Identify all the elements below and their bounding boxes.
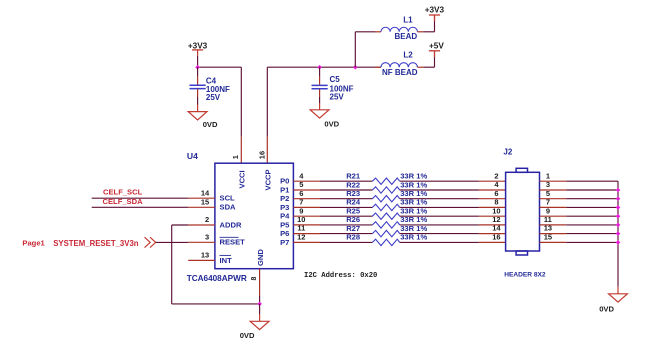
J2 pin 8 number	[494, 198, 498, 207]
pin name P1	[280, 185, 290, 194]
J2 pin 3 number	[546, 180, 550, 189]
svg-text:P5: P5	[280, 220, 290, 229]
svg-text:15: 15	[544, 233, 552, 242]
J2 pin 15 number	[544, 233, 552, 242]
resistor R22 33R 1%	[346, 180, 427, 193]
resistor R24 33R 1%	[346, 198, 427, 211]
svg-text:6: 6	[299, 189, 303, 198]
wire R24 to J2	[400, 206, 506, 208]
svg-text:33R 1%: 33R 1%	[400, 172, 427, 181]
op-amp/IC U4 TCA6408APWR body	[187, 151, 294, 283]
pin number 14	[201, 188, 210, 197]
J2 pin 2 number	[494, 171, 498, 180]
svg-text:15: 15	[201, 197, 209, 206]
svg-text:P6: P6	[280, 229, 289, 238]
connector J2 HEADER 8X2 body	[503, 148, 546, 279]
resistor R26 33R 1%	[346, 215, 427, 228]
U4 pin 6 P2 stub	[293, 198, 320, 200]
wire ADDR loop: left and down to gnd rail	[172, 225, 260, 304]
pin name GND	[256, 249, 265, 266]
svg-text:R24: R24	[346, 198, 361, 207]
capacitor C5 100NF 25V	[312, 75, 354, 102]
svg-text:33R 1%: 33R 1%	[400, 198, 427, 207]
net CELF_SCL wire	[92, 197, 189, 199]
wire U4 pin16 up	[266, 67, 268, 163]
pin name SCL	[220, 194, 236, 203]
U4 pin 7 P3 stub	[293, 206, 320, 208]
svg-text:+3V3: +3V3	[425, 6, 445, 15]
wire junction to ground symbol	[259, 304, 261, 321]
wire RESET to chevron	[156, 241, 189, 243]
resistor R27 33R 1%	[346, 224, 427, 237]
resistor R23 33R 1%	[346, 189, 427, 202]
svg-text:10: 10	[297, 215, 305, 224]
svg-text:R22: R22	[346, 180, 360, 189]
wire R25 to J2	[400, 215, 506, 217]
J2 pin 13 number	[544, 224, 552, 233]
svg-text:R26: R26	[346, 215, 360, 224]
wire U4 to R25	[320, 215, 372, 217]
svg-text:33R 1%: 33R 1%	[400, 215, 427, 224]
ground 0VD under C5	[310, 110, 339, 129]
svg-text:1: 1	[546, 171, 550, 180]
svg-text:HEADER 8X2: HEADER 8X2	[504, 271, 546, 278]
J2 pin 10 number	[492, 206, 500, 215]
wire junction to C4	[197, 67, 199, 84]
pin number 11	[297, 224, 305, 233]
pin name P2	[280, 194, 289, 203]
svg-text:P2: P2	[280, 194, 289, 203]
net label CELF_SCL	[103, 188, 143, 197]
svg-text:P3: P3	[280, 203, 289, 212]
node junction bus row 2	[616, 188, 621, 193]
ground 0VD under C4	[188, 112, 218, 129]
pin name P3	[280, 203, 289, 212]
wire up to L1 row	[355, 32, 381, 67]
pin 1 number	[231, 155, 240, 159]
wire U4 to R26	[320, 224, 372, 226]
svg-text:25V: 25V	[330, 93, 345, 102]
svg-text:33R 1%: 33R 1%	[400, 233, 427, 242]
power symbol +3V3 (left)	[188, 41, 208, 56]
wire C5 to ground	[319, 89, 321, 110]
svg-text:5: 5	[546, 189, 550, 198]
node junction bus row 6	[616, 223, 621, 228]
svg-text:2: 2	[494, 171, 498, 180]
wire U4 to R27	[320, 233, 372, 235]
node junction bus row 7	[616, 231, 621, 236]
J2 pin 3 stub/wire to bus	[540, 189, 619, 191]
svg-text:R25: R25	[346, 207, 361, 216]
J2 pin 12 number	[492, 215, 500, 224]
pin name VCCI	[237, 170, 246, 188]
pin number 3	[205, 232, 209, 241]
page reference Page1	[22, 238, 45, 247]
wire R21 to J2	[400, 180, 506, 182]
svg-text:11: 11	[544, 215, 552, 224]
svg-text:0VD: 0VD	[203, 120, 218, 129]
svg-text:2: 2	[205, 215, 209, 224]
svg-text:16: 16	[257, 151, 266, 159]
svg-text:+5V: +5V	[429, 41, 444, 50]
resistor R25 33R 1%	[346, 207, 427, 220]
J2 pin 11 number	[544, 215, 552, 224]
wire R23 to J2	[400, 198, 506, 200]
node junction GND/ADDR	[257, 302, 262, 307]
power symbol +3V3 (right)	[425, 6, 445, 21]
node junction bus row 8	[616, 240, 621, 245]
pin name SDA	[220, 203, 237, 212]
wire VCCP rail to beads	[267, 66, 381, 68]
wire R28 to J2	[400, 241, 506, 243]
U4 pin 3 RESET stub	[188, 241, 215, 243]
U4 pin 12 P7 stub	[293, 241, 320, 243]
wire bus to ground	[617, 287, 619, 294]
ground 0VD at bus	[599, 294, 627, 314]
U4 pin 14 SCL stub	[188, 197, 215, 199]
pin number 15	[201, 197, 209, 206]
svg-text:P7: P7	[280, 238, 289, 247]
svg-text:GND: GND	[256, 249, 265, 266]
wire L2 to +5V	[417, 51, 434, 67]
svg-text:P0: P0	[280, 177, 289, 186]
svg-text:SCL: SCL	[220, 194, 236, 203]
svg-text:L1: L1	[403, 16, 413, 25]
wire into L2	[375, 66, 381, 68]
J2 pin 5 stub/wire to bus	[540, 198, 619, 200]
wire R27 to J2	[400, 233, 506, 235]
svg-text:CELF_SDA: CELF_SDA	[103, 197, 144, 206]
wire U4 to R24	[320, 206, 372, 208]
U4 pin 2 ADDR stub	[188, 224, 215, 226]
svg-text:0VD: 0VD	[324, 120, 339, 129]
ground bus wire on right	[617, 181, 619, 286]
svg-text:16: 16	[492, 233, 500, 242]
wire U4 to R21	[320, 180, 372, 182]
svg-text:BEAD: BEAD	[395, 32, 418, 41]
U4 pin 15 SDA stub	[188, 206, 215, 208]
wire +3V3 stem to junction	[197, 56, 199, 67]
svg-text:33R 1%: 33R 1%	[400, 207, 427, 216]
svg-text:33R 1%: 33R 1%	[400, 224, 427, 233]
svg-text:33R 1%: 33R 1%	[400, 189, 427, 198]
wire L1 to +3V3	[417, 15, 434, 32]
pin name P7	[280, 238, 289, 247]
svg-text:3: 3	[205, 232, 209, 241]
node junction bus row 4	[616, 205, 621, 210]
wire GND pin to junction	[259, 296, 261, 304]
svg-text:R27: R27	[346, 224, 360, 233]
wire R22 to J2	[400, 189, 506, 191]
svg-text:33R 1%: 33R 1%	[400, 180, 427, 189]
J2 pin 13 stub/wire to bus	[540, 233, 619, 235]
wire junction to C5	[319, 67, 321, 85]
svg-text:R21: R21	[346, 172, 361, 181]
J2 pin 14 number	[492, 224, 501, 233]
svg-text:C5: C5	[330, 75, 341, 84]
svg-text:8: 8	[494, 198, 498, 207]
svg-text:13: 13	[544, 224, 552, 233]
svg-text:J2: J2	[503, 148, 512, 157]
J2 pin 7 number	[546, 198, 550, 207]
resistor R21 33R 1%	[346, 172, 427, 185]
J2 pin 1 stub/wire to bus	[540, 180, 619, 182]
inductor L1 BEAD	[381, 16, 417, 42]
svg-text:25V: 25V	[206, 93, 221, 102]
svg-text:NF BEAD: NF BEAD	[382, 68, 418, 77]
svg-text:0VD: 0VD	[240, 331, 255, 340]
svg-text:Page1: Page1	[22, 238, 45, 247]
svg-text:RESET: RESET	[220, 238, 246, 247]
pin name P4	[280, 212, 290, 221]
node junction at C5	[317, 65, 322, 70]
svg-text:R23: R23	[346, 189, 360, 198]
svg-text:7: 7	[299, 198, 303, 207]
node junction bead split	[353, 65, 358, 70]
pin number 10	[297, 215, 305, 224]
net label CELF_SDA	[103, 197, 144, 206]
wire U4 to R28	[320, 241, 372, 243]
pin number 2	[205, 215, 209, 224]
svg-text:P4: P4	[280, 212, 290, 221]
svg-text:VCCI: VCCI	[237, 170, 246, 188]
off-page connector SYSTEM_RESET_3V3n	[145, 237, 156, 247]
svg-text:R28: R28	[346, 233, 360, 242]
svg-text:9: 9	[299, 206, 303, 215]
U4 pin 4 P0 stub	[293, 180, 320, 182]
J2 pin 16 number	[492, 233, 500, 242]
resistor R28 33R 1%	[346, 233, 427, 246]
svg-text:11: 11	[297, 224, 305, 233]
pin name P0	[280, 177, 289, 186]
svg-text:12: 12	[492, 215, 500, 224]
net label SYSTEM_RESET_3V3n	[53, 239, 139, 248]
U4 pin 9 P4 stub	[293, 215, 320, 217]
svg-text:L2: L2	[403, 51, 413, 60]
pin 16 number	[257, 151, 266, 159]
U4 pin 10 P5 stub	[293, 224, 320, 226]
svg-text:14: 14	[201, 188, 210, 197]
U4 pin 11 P6 stub	[293, 233, 320, 235]
ground 0VD under U4	[240, 321, 269, 340]
svg-text:14: 14	[492, 224, 501, 233]
svg-text:P1: P1	[280, 185, 290, 194]
svg-text:9: 9	[546, 206, 550, 215]
J2 pin 11 stub/wire to bus	[540, 224, 619, 226]
svg-text:VCCP: VCCP	[263, 169, 272, 190]
node junction at C4 top	[195, 65, 200, 70]
pin name P5	[280, 220, 290, 229]
svg-text:8: 8	[251, 277, 258, 281]
pin number 5	[299, 180, 303, 189]
svg-text:5: 5	[299, 180, 303, 189]
node junction bus row 5	[616, 214, 621, 219]
node junction bus row 3	[616, 196, 621, 201]
J2 pin 7 stub/wire to bus	[540, 206, 619, 208]
svg-text:INT: INT	[220, 256, 233, 265]
svg-text:U4: U4	[187, 151, 198, 161]
svg-text:CELF_SCL: CELF_SCL	[103, 188, 143, 197]
svg-text:SYSTEM_RESET_3V3n: SYSTEM_RESET_3V3n	[53, 239, 139, 248]
pin number 6	[299, 189, 303, 198]
wire R26 to J2	[400, 224, 506, 226]
net CELF_SDA wire	[92, 206, 189, 208]
svg-text:I2C Address: 0x20: I2C Address: 0x20	[304, 272, 377, 280]
J2 pin 9 number	[546, 206, 550, 215]
pin number 4	[299, 171, 304, 180]
I2C address note	[304, 272, 377, 280]
wire junction to pin1 corner	[198, 66, 242, 68]
pin name INT	[220, 255, 233, 264]
U4 pin 13 INT stub	[188, 259, 215, 261]
inductor L2 NF BEAD	[381, 51, 418, 77]
J2 pin 15 stub/wire to bus	[540, 241, 619, 243]
pin number 9	[299, 206, 303, 215]
pin name VCCP	[263, 169, 272, 190]
svg-text:7: 7	[546, 198, 550, 207]
pin name RESET	[220, 237, 246, 246]
svg-text:12: 12	[297, 233, 305, 242]
svg-text:6: 6	[494, 189, 498, 198]
power symbol +5V	[429, 41, 444, 56]
pin name ADDR	[220, 220, 242, 229]
pin name P6	[280, 229, 289, 238]
J2 pin 4 number	[494, 180, 499, 189]
svg-text:13: 13	[201, 251, 209, 260]
pin number 12	[297, 233, 305, 242]
U4 pin 5 P1 stub	[293, 189, 320, 191]
svg-text:+3V3: +3V3	[188, 41, 208, 50]
pin number 7	[299, 198, 303, 207]
pin number 8	[251, 277, 258, 281]
svg-text:1: 1	[231, 155, 240, 159]
J2 pin 5 number	[546, 189, 550, 198]
svg-text:TCA6408APWR: TCA6408APWR	[187, 274, 247, 283]
wire U4 to R22	[320, 189, 372, 191]
capacitor C4 100NF 25V	[190, 77, 231, 103]
J2 pin 6 number	[494, 189, 498, 198]
wire down to U4 pin 1	[240, 67, 242, 163]
wire U4 to R23	[320, 198, 372, 200]
J2 pin 9 stub/wire to bus	[540, 215, 619, 217]
svg-text:ADDR: ADDR	[220, 220, 242, 229]
pin number 13	[201, 251, 209, 260]
svg-text:10: 10	[492, 206, 500, 215]
wire C4 to ground	[197, 89, 199, 112]
svg-text:3: 3	[546, 180, 550, 189]
svg-text:SDA: SDA	[220, 203, 237, 212]
U4 pin 8 GND stub	[259, 269, 261, 296]
svg-text:0VD: 0VD	[599, 304, 614, 313]
J2 pin 1 number	[546, 171, 550, 180]
